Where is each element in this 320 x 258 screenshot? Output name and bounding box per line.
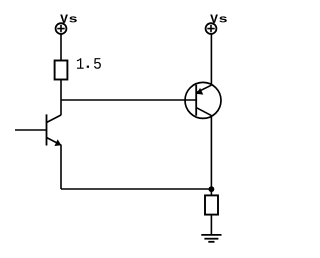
value label 1.5 (R1)	[77, 58, 101, 69]
wire node to Q2 base	[61, 99, 196, 101]
transistor Q1 (NPN)	[47, 114, 62, 146]
transistor Q2 (PNP in circle)	[185, 82, 221, 118]
wire Q2 emitter up to V2	[210, 34, 212, 85]
wire R1 down to Q1 collector corner	[60, 80, 62, 116]
wire Q2 collector down	[210, 116, 212, 196]
wire Q1 emitter down	[60, 145, 62, 189]
voltage source V1 (+ circle, left)	[56, 23, 67, 34]
wire base lead Q1	[15, 129, 47, 131]
ground	[201, 235, 221, 242]
wire V1 to R1	[60, 34, 62, 60]
voltage source V2 (+ circle, right)	[206, 23, 217, 34]
wire bottom horizontal	[61, 188, 211, 190]
label Vs (right supply)	[210, 15, 227, 23]
junction node dot	[209, 186, 215, 192]
resistor R2	[205, 195, 218, 214]
resistor R1	[55, 61, 68, 80]
label Vs (left supply)	[60, 15, 77, 23]
wire R2 to ground	[210, 215, 212, 235]
